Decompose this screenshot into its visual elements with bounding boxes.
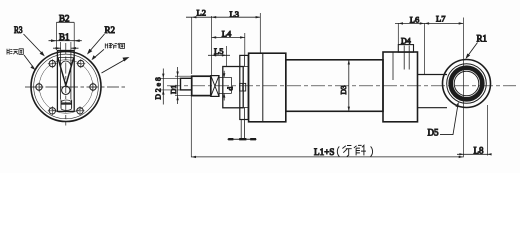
- flange outer circle: [31, 52, 101, 122]
- clevis V-groove: [58, 58, 74, 85]
- clevis bushing: [61, 100, 72, 111]
- rear port boss: [398, 45, 413, 53]
- dimension B2: [49, 13, 82, 50]
- bolt hole top-right: [76, 59, 85, 68]
- section view arrow: [102, 57, 130, 73]
- flange end view: vertical centerline: [65, 43, 67, 126]
- bolt hole bottom-right: [76, 106, 85, 115]
- dimension d: [223, 71, 235, 101]
- rear eye neck: [418, 75, 448, 108]
- svg-text:D3: D3: [339, 85, 348, 94]
- svg-text:L1+S: L1+S: [314, 147, 335, 157]
- dimension L4: [212, 28, 245, 55]
- clevis slot rectangle: [57, 51, 74, 112]
- svg-text:R2: R2: [105, 25, 116, 35]
- svg-text:B1: B1: [59, 32, 70, 42]
- svg-text:L8: L8: [474, 145, 484, 155]
- gland nut block: [223, 67, 243, 108]
- clevis dome arc: [61, 61, 71, 67]
- clevis pin circle: [62, 86, 70, 94]
- svg-text:L7: L7: [436, 13, 445, 23]
- svg-text:D5: D5: [428, 128, 439, 138]
- dimension L1+S: [191, 96, 463, 158]
- bolt hole bottom-left: [48, 106, 57, 115]
- label exhaust-valve (Chinese): [7, 49, 35, 70]
- svg-text:D2e8: D2e8: [153, 75, 162, 99]
- svg-text:L4: L4: [222, 28, 232, 38]
- rod inside gland: [219, 77, 232, 93]
- wrench-flat box with X: [211, 76, 219, 97]
- shared extension line through eye: [462, 18, 464, 158]
- bolt hole top-left: [48, 59, 57, 68]
- piston rod end block: [192, 76, 211, 95]
- bolt hole right: [89, 83, 98, 92]
- rear cap block: [383, 52, 418, 122]
- svg-text:d: d: [226, 87, 235, 91]
- dimension L7: [424, 13, 463, 24]
- rear eye bore circle: [454, 71, 479, 96]
- dimension L3: [212, 9, 261, 75]
- svg-text:B2: B2: [59, 13, 70, 23]
- svg-text:D1: D1: [169, 85, 178, 94]
- svg-text:L6: L6: [410, 14, 419, 24]
- dimension D3: [339, 60, 350, 112]
- clevis slot inner lines: [61, 53, 71, 100]
- rear port hidden lines: [404, 46, 409, 70]
- label D5: [428, 102, 459, 138]
- dimension L2: [186, 8, 212, 74]
- label cushion-valve (Chinese): [92, 43, 125, 60]
- flange end view: horizontal centerline: [25, 86, 128, 88]
- dimension L6: [395, 14, 424, 74]
- dimension D1: [169, 67, 192, 104]
- dimension D2e8: [153, 69, 180, 105]
- svg-text:D4: D4: [401, 37, 411, 46]
- cylinder head block: [249, 53, 286, 122]
- side view main centerline: [167, 85, 516, 87]
- gland foot symbol: [228, 120, 257, 140]
- cylinder tube: [286, 60, 383, 112]
- dimension L5: [208, 46, 230, 66]
- dimension B1: [53, 32, 79, 52]
- piston rod threaded end: [181, 78, 192, 90]
- svg-text:L2: L2: [197, 8, 206, 18]
- bolt hole left: [35, 83, 44, 92]
- label R3: [14, 25, 45, 56]
- rear eye outer circle: [443, 60, 491, 108]
- dimension L8: [457, 105, 492, 156]
- front flange bar: [240, 55, 248, 119]
- svg-text:R3: R3: [14, 25, 23, 35]
- bolt circle: [39, 60, 93, 114]
- gland port notch: [240, 83, 246, 91]
- rear eye second circle: [447, 64, 487, 104]
- svg-text:R1: R1: [477, 34, 488, 44]
- clevis slot top chord: [57, 57, 74, 59]
- rear eye bushing ring: [451, 68, 483, 100]
- label R2: [87, 25, 115, 55]
- flange inner circle: [34, 54, 99, 119]
- label R1: [466, 34, 488, 60]
